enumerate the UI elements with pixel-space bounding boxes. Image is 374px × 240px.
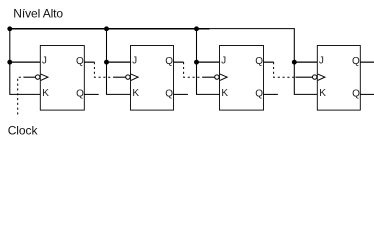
wire: Nível Alto top rail (left segment) xyxy=(9,28,209,30)
wire: Q1bar stub xyxy=(84,93,98,95)
wire: solid tail into CLK1 bubble xyxy=(23,76,35,78)
clock edge triangle (U2) xyxy=(131,74,138,80)
wire: Q2 output stub xyxy=(174,61,184,63)
wire: solid tail into CLK3 bubble xyxy=(202,76,214,78)
wire: solid tail into CLK2 bubble xyxy=(113,76,125,78)
svg-text:K: K xyxy=(319,88,326,99)
junction dot: rail / feed 3 xyxy=(194,26,199,31)
junction dot: rail / feed 2 xyxy=(104,26,109,31)
wire: J branch 1 xyxy=(10,61,41,63)
svg-text:Q: Q xyxy=(352,89,360,100)
flip-flop U4 box xyxy=(317,46,360,111)
svg-text:Q: Q xyxy=(165,89,173,100)
wire: Q4bar stub xyxy=(360,93,374,95)
clock edge triangle (U1) xyxy=(41,74,48,80)
wire: feed drop 1 (rail to K input of U1) xyxy=(10,29,41,95)
flip-flop U3 box xyxy=(220,46,264,111)
wire: Q3 output stub xyxy=(264,61,274,63)
svg-text:J: J xyxy=(42,56,47,67)
svg-text:K: K xyxy=(221,88,228,99)
flip-flop U2 box xyxy=(131,46,174,111)
svg-text:Q: Q xyxy=(76,56,84,67)
clock bubble (U1) xyxy=(36,75,40,79)
svg-text:Q: Q xyxy=(165,56,173,67)
wire: Nível Alto top rail (right segment) xyxy=(210,28,295,30)
clock bubble (U4) xyxy=(313,75,317,79)
svg-text:Q: Q xyxy=(255,56,263,67)
svg-text:Nível Alto: Nível Alto xyxy=(13,6,63,20)
junction dot: J/K branch 2 xyxy=(104,60,109,65)
svg-text:J: J xyxy=(319,56,324,67)
wire: Clock dashed riser xyxy=(18,77,22,114)
wire: Q4 output stub xyxy=(360,61,374,63)
svg-text:J: J xyxy=(221,56,226,67)
wire: solid tail into CLK4 bubble xyxy=(296,76,313,78)
junction dot: J/K branch 3 xyxy=(194,60,199,65)
clock bubble (U2) xyxy=(126,75,130,79)
flip-flop U1 box xyxy=(40,46,84,111)
junction dot: J/K branch 1 xyxy=(7,60,12,65)
wire: J branch 3 xyxy=(197,61,220,63)
svg-text:Q: Q xyxy=(255,89,263,100)
wire: J branch 2 xyxy=(107,61,131,63)
wire: dashed link Q3 to CLK4 xyxy=(274,62,296,77)
wire: J branch 4 xyxy=(294,61,317,63)
wire: dashed link Q1 to CLK2 xyxy=(94,62,113,77)
wire: feed drop 4 (rail to K input of U4) xyxy=(294,29,317,95)
wire: Q3bar stub xyxy=(264,93,278,95)
svg-text:Q: Q xyxy=(76,89,84,100)
wire: feed drop 3 (rail to K input of U3) xyxy=(197,29,220,95)
wire: dashed link Q2 to CLK3 xyxy=(184,62,203,77)
wire: feed drop 2 (rail to K input of U2) xyxy=(107,29,131,95)
clock bubble (U3) xyxy=(215,75,219,79)
clock edge triangle (U3) xyxy=(220,74,227,80)
junction dot: J/K branch 4 xyxy=(292,60,297,65)
junction dot: rail / feed 1 xyxy=(7,26,12,31)
svg-text:Clock: Clock xyxy=(8,124,39,138)
wire: Q1 output stub xyxy=(84,61,94,63)
svg-text:K: K xyxy=(132,88,139,99)
svg-text:K: K xyxy=(42,88,49,99)
clock edge triangle (U4) xyxy=(318,74,325,80)
svg-text:J: J xyxy=(132,56,137,67)
wire: Q2bar stub xyxy=(174,93,188,95)
svg-text:Q: Q xyxy=(352,56,360,67)
